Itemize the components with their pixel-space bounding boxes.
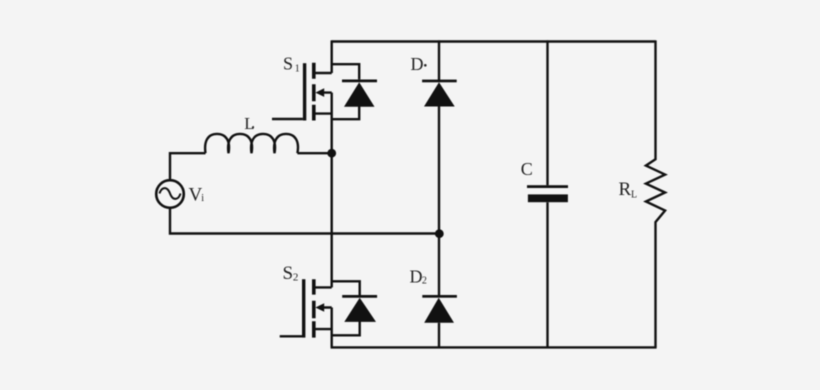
svg-text:2: 2 (293, 272, 299, 284)
svg-text:i: i (201, 193, 204, 204)
svg-text:1: 1 (295, 64, 300, 75)
svg-text:S: S (283, 54, 293, 74)
svg-text:C: C (521, 159, 533, 179)
svg-text:2: 2 (422, 275, 427, 286)
svg-text:S: S (283, 263, 294, 284)
svg-text:R: R (619, 179, 632, 200)
svg-text:D: D (410, 266, 423, 286)
svg-text:L: L (631, 190, 637, 201)
svg-text:D: D (411, 54, 424, 74)
svg-text:L: L (244, 114, 254, 133)
